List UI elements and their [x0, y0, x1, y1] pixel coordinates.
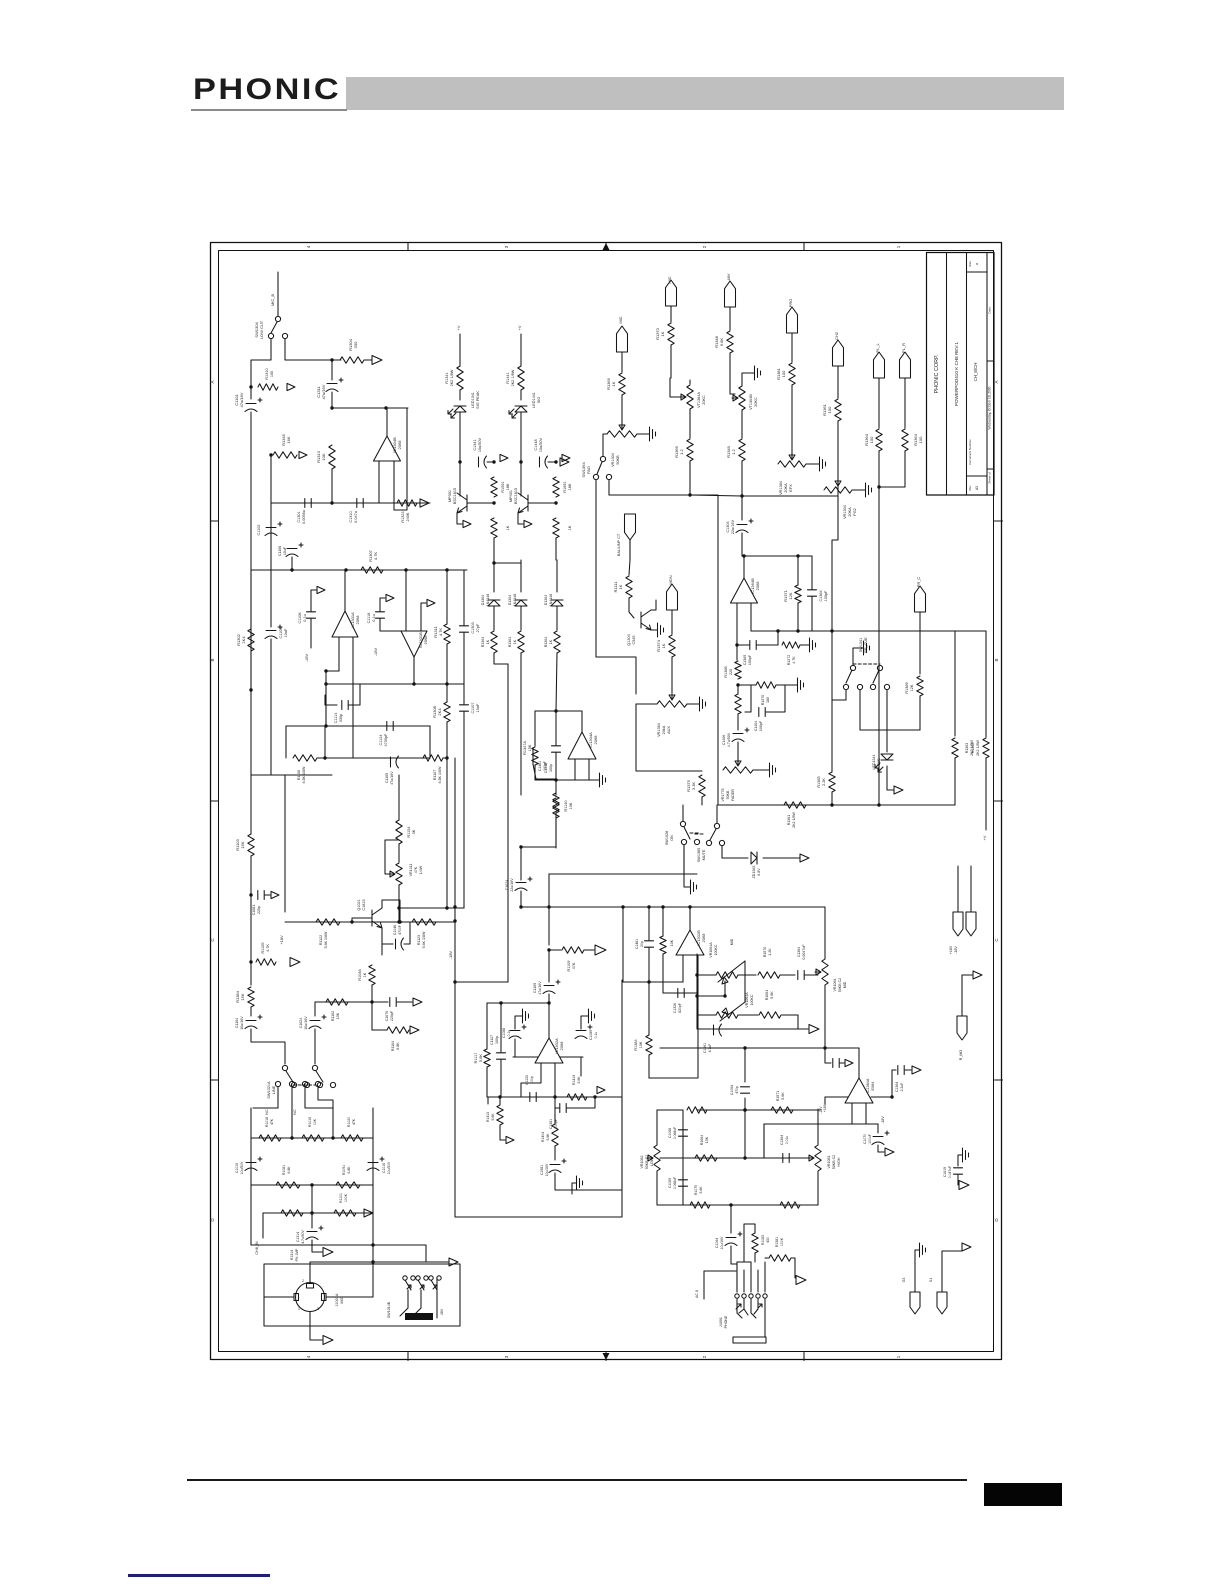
- wire pad bus right: [690, 495, 718, 805]
- svg-text:NC: NC: [293, 1109, 297, 1115]
- switch SW1364 contact b: [606, 474, 611, 479]
- wire c1108 up: [311, 590, 316, 611]
- wire base: [528, 502, 556, 504]
- resistor R1364b: [902, 429, 908, 451]
- connector CH2: [833, 340, 844, 366]
- svg-text:C1303: C1303: [471, 622, 475, 633]
- svg-text:2.2K: 2.2K: [822, 778, 826, 786]
- svg-text:ZD1363: ZD1363: [752, 866, 756, 879]
- wire 955 dn: [954, 758, 956, 805]
- wire c1088 g: [515, 1016, 520, 1029]
- wire c1365 wire: [737, 644, 749, 646]
- resistor R1374: [669, 635, 675, 657]
- svg-text:C1024: C1024: [505, 880, 509, 891]
- wire 286 down: [285, 726, 287, 758]
- svg-text:PRO: PRO: [788, 299, 793, 308]
- capacitor C1089 0.1u: [575, 1031, 587, 1039]
- svg-text:50KB C2: 50KB C2: [832, 1155, 836, 1169]
- wire box fb: [621, 1097, 623, 1190]
- resistor 1K 1: [518, 631, 524, 653]
- svg-text:0.068uF: 0.068uF: [673, 1127, 677, 1139]
- svg-text:10u/50V: 10u/50V: [387, 1161, 391, 1174]
- wire c1114 r: [349, 684, 360, 705]
- capacitor C1304 22u/16V: [736, 525, 748, 533]
- switch SW1014B c405: [403, 1276, 407, 1280]
- node res rail top: [554, 460, 557, 463]
- switch contact 1365a: [706, 840, 711, 845]
- wire bottom loop: [535, 779, 589, 781]
- svg-text:100pF: 100pF: [748, 654, 752, 665]
- node 745 1110: [743, 1108, 746, 1111]
- svg-text:5.6K: 5.6K: [770, 991, 774, 999]
- node bus2 a: [330, 501, 333, 504]
- ground power box: [574, 1176, 583, 1190]
- wire bus631: [751, 630, 986, 632]
- bar jack sleeve: [733, 1337, 766, 1343]
- node 1138 b: [331, 1136, 334, 1139]
- svg-text:2: 2: [702, 1355, 707, 1358]
- node left rail R1345: [269, 453, 272, 456]
- svg-text:+V: +V: [456, 325, 461, 330]
- svg-text:3: 3: [504, 245, 509, 248]
- svg-text:1K: 1K: [513, 639, 517, 644]
- wire trim top: [689, 380, 691, 384]
- svg-text:R1384: R1384: [634, 1039, 638, 1050]
- wire bus1213: [263, 1212, 373, 1214]
- wire opamp input: [378, 461, 380, 503]
- wire aux left: [636, 703, 657, 705]
- svg-text:15K: 15K: [240, 993, 245, 1000]
- wire bus to cue rail: [832, 496, 838, 560]
- wire bus874: [549, 873, 697, 875]
- trimmer VR1364 20KA: [778, 461, 806, 467]
- wire base: [467, 502, 494, 504]
- svg-text:1.2: 1.2: [679, 448, 684, 454]
- svg-text:4: 4: [306, 1355, 311, 1358]
- svg-text:1K: 1K: [506, 525, 510, 530]
- node led rail: [458, 460, 461, 463]
- capacitor C1406 4.7u/50V: [732, 734, 744, 742]
- node ic1304a btm: [554, 778, 557, 781]
- resistor below: [553, 798, 559, 818]
- diode D1300 1N4148: [488, 600, 500, 606]
- node ic1304a: [554, 709, 557, 712]
- capacitor C1310: [357, 499, 363, 508]
- svg-text:47u/16V: 47u/16V: [321, 384, 326, 399]
- capacitor C1069 0.068uF: [679, 1180, 688, 1186]
- switch contact b2: [884, 684, 889, 689]
- node box a: [498, 1095, 501, 1098]
- ground cue: [861, 641, 870, 655]
- svg-text:VR1064A: VR1064A: [709, 942, 713, 958]
- wire oa1 inp2: [352, 637, 354, 758]
- wire c1046 v: [404, 922, 410, 944]
- wire 657 dn: [656, 1171, 658, 1205]
- resistor R1324: [397, 500, 417, 506]
- capacitor C1314: [306, 1232, 318, 1240]
- node bus805 a: [830, 803, 833, 806]
- switch contact 1365b: [719, 840, 724, 845]
- switch contact b1: [870, 684, 875, 689]
- port arrow r1109: [595, 945, 606, 955]
- resistor R1104 6.8K: [387, 1027, 409, 1033]
- frame inner border: [219, 251, 994, 1352]
- wire pl rail dn: [878, 560, 880, 805]
- svg-text:MID: MID: [843, 981, 847, 988]
- svg-text:180: 180: [766, 697, 770, 703]
- connector J1001A XLR body: [296, 1283, 325, 1312]
- svg-text:R1570: R1570: [763, 947, 767, 958]
- svg-text:2068: 2068: [397, 440, 402, 450]
- wire collector: [459, 462, 461, 496]
- node b3 d: [445, 568, 448, 571]
- wire bus1: [332, 407, 408, 409]
- svg-text:2K2 1/8W: 2K2 1/8W: [511, 369, 515, 386]
- resistor R1091 6.8K: [336, 1182, 360, 1188]
- wire loop1367: [745, 685, 751, 712]
- wire 464 down3: [463, 712, 465, 908]
- switch dashed link: [853, 663, 880, 665]
- wire oa64 apex: [858, 1048, 860, 1078]
- op-amp IC1304A: [568, 732, 596, 759]
- node res rail top: [492, 460, 495, 463]
- svg-text:C1069: C1069: [668, 1178, 672, 1188]
- svg-text:R1404: R1404: [541, 1132, 545, 1142]
- wire c1348 v2: [555, 753, 557, 780]
- svg-text:R1106: R1106: [297, 770, 301, 780]
- wire 986 rail: [985, 631, 987, 737]
- node 649 982: [647, 980, 650, 983]
- wire bus975: [697, 974, 716, 976]
- wire bus1029: [712, 1028, 798, 1030]
- svg-text:MIC: MIC: [618, 316, 623, 323]
- svg-text:PAD: PAD: [586, 466, 591, 474]
- svg-text:C1015: C1015: [235, 1163, 239, 1173]
- svg-text:E084: E084: [871, 1082, 875, 1091]
- resistor R1370 180: [756, 682, 776, 688]
- wire bus758: [317, 757, 430, 759]
- svg-text:48V: 48V: [440, 1308, 444, 1315]
- capacitor C1364b 0.0047u: [798, 971, 804, 980]
- wire 251 rail mid2: [250, 651, 252, 690]
- frame tick left: [211, 520, 219, 522]
- wire box l3: [500, 1125, 505, 1140]
- svg-text:C1117: C1117: [490, 1035, 494, 1045]
- wire bus1003: [487, 1002, 549, 1004]
- wire 447 down: [446, 684, 448, 702]
- wire box l: [487, 1097, 489, 1104]
- svg-text:PHONIC CORP.: PHONIC CORP.: [934, 355, 940, 394]
- svg-text:R1091: R1091: [342, 1165, 346, 1175]
- svg-text:R1314: R1314: [290, 1250, 294, 1260]
- wire bus1185: [251, 1184, 373, 1186]
- resistor R1375 3.3K: [699, 775, 705, 797]
- wire 663 up: [662, 907, 664, 936]
- svg-text:50KB: 50KB: [616, 455, 620, 465]
- wire bus1057R: [560, 1056, 583, 1058]
- svg-text:1: 1: [896, 1355, 901, 1358]
- capacitor C1107 10uF: [460, 705, 469, 711]
- wire jack rail2: [743, 1270, 745, 1292]
- port arrow peak: [562, 454, 570, 461]
- resistor R1081 6.8K: [276, 1182, 300, 1188]
- node junction: [330, 358, 333, 361]
- wire from contact b: [285, 339, 332, 360]
- svg-text:R1591: R1591: [501, 481, 505, 492]
- resistor R1106 6.8K 1/8W: [293, 755, 317, 761]
- svg-text:18K: 18K: [506, 483, 510, 490]
- wire ph dn2: [413, 1290, 421, 1316]
- svg-text:12K: 12K: [910, 684, 914, 691]
- wire 399 up: [398, 775, 400, 820]
- wire c1118 dn: [380, 619, 401, 631]
- resistor R1347A 15K: [532, 747, 538, 765]
- svg-text:POWERPOD410 K CH8 REV:1: POWERPOD410 K CH8 REV:1: [954, 341, 959, 406]
- zener ZD1363 6.8V: [751, 852, 757, 864]
- node 1110 a: [743, 1108, 746, 1111]
- wire xlr pin3: [326, 1296, 373, 1298]
- resistor R1313: [329, 445, 335, 469]
- switch SW1365 pole: [714, 823, 719, 828]
- wire opamp feedback: [394, 408, 407, 510]
- wire bus996: [697, 995, 725, 997]
- ground on-switch: [688, 880, 697, 894]
- svg-text:NC: NC: [265, 1109, 269, 1115]
- op-amp IC1301A: [332, 611, 358, 637]
- port arrow R1324: [420, 499, 429, 507]
- svg-text:VR1311: VR1311: [409, 864, 413, 877]
- svg-text:+18V: +18V: [279, 935, 284, 945]
- wire mic input: [277, 272, 279, 316]
- wire q1021 e: [381, 928, 383, 955]
- capacitor C1061 4.7uF: [714, 1024, 722, 1036]
- resistor R1307: [361, 567, 383, 573]
- node 744 556: [742, 554, 745, 557]
- wire oa64 out: [871, 1096, 892, 1098]
- wire c1070 out: [878, 1145, 884, 1152]
- node 455 921: [453, 919, 456, 922]
- ground iso2: [917, 1243, 926, 1257]
- svg-text:CH2: CH2: [834, 331, 839, 340]
- capacitor C1108 0.1u: [307, 612, 316, 618]
- switch SW1014 contact 2: [302, 1081, 307, 1086]
- svg-text:SW1341: SW1341: [859, 638, 863, 653]
- wire box mid: [554, 1097, 556, 1104]
- port arrow peak: [500, 454, 508, 461]
- svg-text:PL_L: PL_L: [875, 343, 880, 353]
- wire oaB inR: [697, 955, 699, 993]
- ground pot: [647, 427, 656, 441]
- svg-text:a: a: [975, 263, 979, 265]
- svg-text:C1105: C1105: [385, 773, 389, 783]
- ground aux: [697, 697, 706, 711]
- svg-text:C1481: C1481: [538, 761, 542, 771]
- wire 697 rail: [696, 954, 698, 1029]
- capacitor C1365 100pF: [750, 641, 756, 650]
- switch SW1014B d405: [411, 1276, 415, 1280]
- svg-text:C1364: C1364: [780, 1135, 784, 1145]
- wire rail mid 1: [520, 606, 522, 630]
- node base: [492, 501, 495, 504]
- port arrow xlr gnd: [323, 1336, 333, 1345]
- resistor R1107 6.8K 1/8W: [423, 755, 443, 761]
- svg-text:D1304: D1304: [481, 595, 485, 606]
- svg-text:R1081: R1081: [282, 1165, 286, 1175]
- wire r1311 d: [446, 644, 448, 684]
- wire iso1b: [957, 1175, 959, 1185]
- svg-text:MP301: MP301: [448, 490, 452, 502]
- resistor R1075 5.6K: [690, 1202, 710, 1208]
- svg-text:240K: 240K: [406, 512, 410, 521]
- svg-text:PN 1MP: PN 1MP: [295, 1248, 299, 1261]
- svg-text:10uF: 10uF: [284, 628, 288, 637]
- svg-text:VR1778: VR1778: [721, 789, 725, 802]
- svg-text:330: 330: [353, 341, 358, 348]
- node 892 1097: [890, 1095, 893, 1098]
- wire c1304 up: [741, 496, 743, 520]
- connector -18V: [966, 912, 976, 936]
- svg-text:4700pF: 4700pF: [384, 733, 388, 747]
- resistor R1103 15K: [248, 834, 254, 856]
- svg-text:AC 8: AC 8: [695, 1290, 699, 1298]
- svg-text:100p: 100p: [495, 1036, 499, 1044]
- wire rail top 1: [520, 560, 522, 592]
- svg-text:R1020: R1020: [347, 1117, 351, 1127]
- svg-text:0.047u: 0.047u: [354, 511, 358, 523]
- wire 725 down: [724, 981, 726, 996]
- port arrow iso3: [962, 1243, 971, 1251]
- svg-text:2068: 2068: [755, 581, 760, 591]
- wire 501 dn: [500, 1003, 502, 1052]
- node b3 c: [404, 568, 407, 571]
- port arrow R1310: [287, 383, 295, 390]
- svg-text:R1107: R1107: [433, 770, 437, 780]
- resistor R1367 220: [735, 694, 741, 714]
- switch contact on b: [694, 839, 699, 844]
- wire 325 link: [324, 726, 326, 758]
- svg-text:100: 100: [781, 370, 786, 377]
- svg-text:1N4148: 1N4148: [549, 594, 553, 607]
- port arrow pad: [560, 458, 569, 466]
- switch dashed line-sw: [293, 1084, 316, 1086]
- wire mute pole up: [716, 805, 718, 823]
- svg-text:C1108: C1108: [298, 613, 302, 624]
- svg-text:Q1304: Q1304: [627, 634, 631, 645]
- svg-text:2068: 2068: [355, 615, 360, 625]
- wire MIC down: [621, 352, 623, 372]
- svg-text:220pF: 220pF: [390, 1010, 394, 1021]
- svg-text:2068: 2068: [701, 933, 706, 943]
- ground r1370: [795, 678, 804, 692]
- wire r1109: [549, 949, 561, 951]
- wire c1364c: [905, 1069, 911, 1071]
- svg-text:MUTE: MUTE: [702, 849, 706, 860]
- svg-text:2068: 2068: [423, 635, 428, 645]
- resistor R1381c 100K: [769, 1255, 791, 1261]
- wire 487 dn: [486, 1003, 488, 1049]
- wire minus dn: [824, 1097, 826, 1104]
- wire bus975d: [805, 974, 818, 976]
- svg-text:C1364: C1364: [797, 947, 801, 958]
- svg-text:1N4148: 1N4148: [513, 594, 517, 607]
- switch SW1364 blade: [597, 462, 602, 474]
- wire res rail down: [493, 538, 495, 560]
- ground r1372: [807, 638, 816, 652]
- svg-text:VR1064A: VR1064A: [745, 992, 749, 1008]
- wire c1303 d: [463, 633, 465, 684]
- jack arrows: [736, 1304, 762, 1309]
- capacitor C1124 4700pF: [387, 722, 393, 731]
- capacitor C1088 0.1u: [509, 1031, 521, 1039]
- svg-text:220p: 220p: [257, 906, 261, 914]
- svg-text:Size: Size: [968, 261, 972, 267]
- svg-text:VT1364A: VT1364A: [697, 392, 701, 408]
- svg-text:1K: 1K: [611, 381, 616, 386]
- node 399 922: [397, 920, 400, 923]
- switch SW1304 pole: [275, 316, 280, 321]
- footer black box: [984, 1483, 1062, 1506]
- wire res rail down: [555, 538, 557, 560]
- wire r1083: [744, 1224, 755, 1262]
- svg-text:2K2 1/8W: 2K2 1/8W: [450, 369, 454, 386]
- wire c1089 dn: [580, 1057, 582, 1076]
- svg-text:47u/16V: 47u/16V: [390, 771, 394, 785]
- svg-text:LINE: LINE: [272, 1085, 276, 1094]
- svg-text:470p: 470p: [735, 1086, 739, 1094]
- wire r1311 rail: [446, 570, 448, 624]
- svg-text:C1341: C1341: [473, 439, 477, 450]
- wire r1104: [372, 1029, 387, 1031]
- wire 373 1262: [372, 1245, 374, 1297]
- svg-text:C1304: C1304: [726, 521, 730, 532]
- wire gang link: [744, 961, 746, 1002]
- wire 649 dn4: [648, 1055, 650, 1078]
- svg-text:R1414: R1414: [572, 1075, 576, 1085]
- svg-text:20kA: 20kA: [662, 725, 666, 734]
- svg-text:-18V: -18V: [374, 648, 378, 656]
- svg-text:10K: 10K: [639, 1041, 643, 1048]
- capacitor C1364e: [783, 1154, 789, 1163]
- wire bus1029 l: [697, 1028, 711, 1030]
- svg-text:15K: 15K: [705, 1136, 709, 1143]
- wire to sw line: [251, 1029, 285, 1064]
- op-amp IC1301B: [401, 631, 427, 657]
- wire rail3 bottom2: [555, 818, 557, 848]
- svg-text:R1369: R1369: [905, 682, 909, 693]
- svg-text:BAL/UNP CT: BAL/UNP CT: [617, 533, 621, 556]
- resistor 2K2: [457, 366, 463, 390]
- svg-text:6.8V: 6.8V: [757, 868, 761, 876]
- wire bus1110: [697, 1109, 820, 1111]
- svg-text:4.7u/50V: 4.7u/50V: [301, 1229, 305, 1243]
- svg-text:C1364: C1364: [895, 1082, 899, 1092]
- svg-text:SW1021A: SW1021A: [267, 1081, 271, 1099]
- wire q coll: [651, 600, 656, 610]
- svg-text:C1310: C1310: [349, 511, 353, 522]
- svg-text:0.0047uF: 0.0047uF: [802, 944, 806, 960]
- wire sw dn1: [253, 1087, 278, 1108]
- switch contact a2: [857, 684, 862, 689]
- svg-text:100p: 100p: [549, 764, 553, 772]
- wire jack stub: [737, 1261, 751, 1263]
- title block divider 2: [966, 253, 968, 496]
- switch contact lb: [304, 1082, 309, 1087]
- svg-text:C1070: C1070: [863, 1134, 867, 1144]
- svg-text:10u/50V: 10u/50V: [240, 1161, 244, 1174]
- resistor R1046 1K: [369, 965, 375, 985]
- resistor R1365 2.2K: [829, 772, 835, 792]
- capacitor C1046 4700F: [396, 938, 404, 950]
